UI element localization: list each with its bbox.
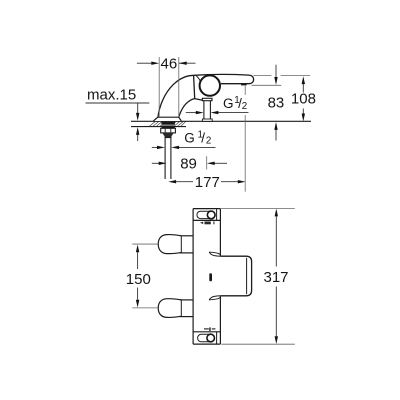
bottom cap pill	[198, 334, 215, 342]
locknut washer (dark)	[162, 122, 175, 129]
body right outline	[179, 99, 195, 118]
svg-text:108: 108	[291, 90, 316, 107]
upper handle lever	[158, 235, 181, 254]
cone below nut	[162, 133, 174, 137]
bottom cap	[193, 331, 220, 333]
body centre slot	[209, 273, 212, 281]
svg-text:317: 317	[264, 269, 289, 286]
threaded tailpiece pipe	[165, 136, 172, 138]
lever / spout bar	[194, 74, 254, 83]
lower handle lever	[158, 299, 181, 318]
hex nut	[161, 128, 176, 133]
svg-text:83: 83	[268, 95, 285, 112]
G1/2 lower pointer arrows	[152, 146, 157, 148]
svg-text:2: 2	[242, 101, 247, 112]
base flange	[153, 117, 181, 121]
upper handle neck	[180, 235, 193, 237]
deck hatching	[149, 121, 186, 126]
deck bottom line	[131, 126, 186, 128]
lower handle neck	[180, 299, 193, 301]
177 right extension line (from aerator, gap at text)	[244, 86, 246, 95]
head block	[194, 75, 203, 100]
108 top extension line	[254, 75, 272, 77]
rear union foot	[202, 119, 212, 121]
svg-text:/: /	[201, 130, 205, 145]
svg-text:177: 177	[195, 174, 220, 191]
svg-text:89: 89	[180, 155, 197, 172]
bottom cap circle	[207, 334, 215, 342]
top cap pill	[197, 211, 215, 218]
svg-text:G: G	[184, 130, 195, 145]
body left outline	[158, 75, 194, 117]
deck top line	[131, 120, 311, 122]
bottom cap markings	[204, 328, 209, 330]
body rectangle	[193, 209, 220, 345]
G1/2 upper pointer arrows	[186, 112, 196, 114]
top cap	[193, 219, 220, 221]
svg-text:max.15: max.15	[87, 86, 136, 103]
fillet between top edge and circle	[196, 76, 200, 82]
46 extension lines	[158, 57, 160, 117]
handle dome circle	[200, 75, 220, 95]
svg-text:G: G	[223, 96, 234, 111]
spout inner line	[246, 258, 248, 294]
89 right extension stub	[206, 156, 208, 169]
collar under circle	[202, 98, 212, 100]
top cap markings	[200, 222, 203, 224]
spout bottom curl	[209, 297, 220, 300]
spout block	[220, 256, 251, 296]
svg-text:2: 2	[206, 136, 211, 147]
svg-text:46: 46	[161, 55, 178, 72]
rear union pipe	[203, 101, 205, 122]
svg-text:150: 150	[126, 271, 151, 288]
top cap circle	[207, 211, 215, 219]
aerator	[241, 84, 247, 86]
spout top curl	[209, 252, 220, 255]
